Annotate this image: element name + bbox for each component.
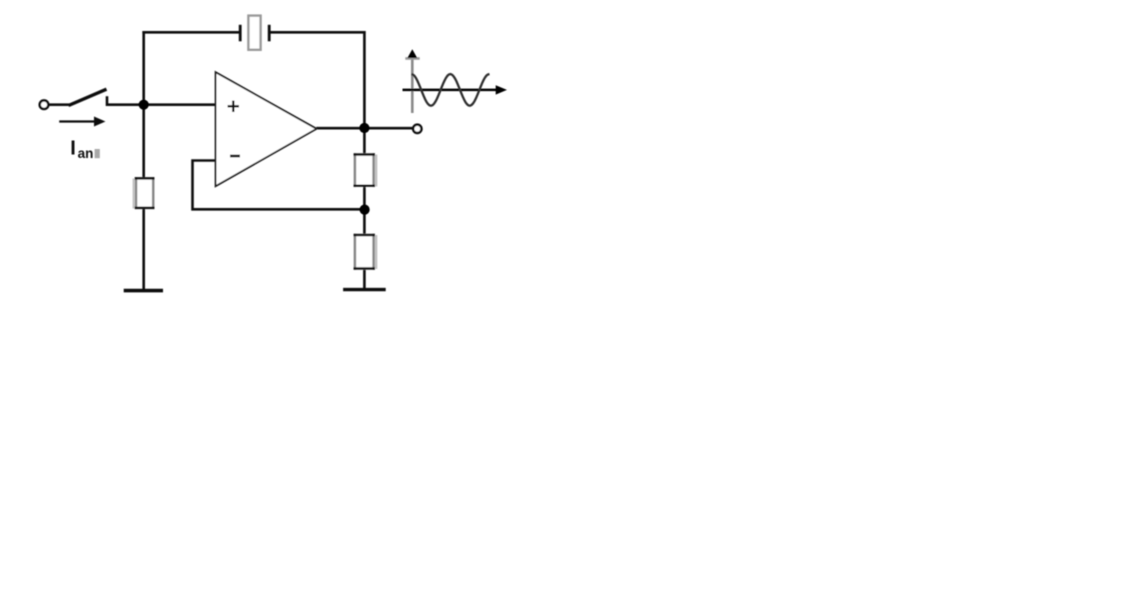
svg-text:an: an xyxy=(78,146,94,161)
svg-text:I: I xyxy=(70,138,76,160)
